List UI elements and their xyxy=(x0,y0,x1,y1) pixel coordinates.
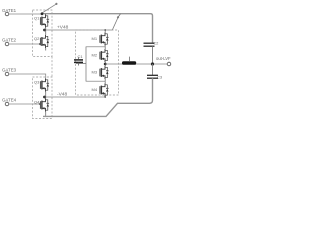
wire ground return bus (gray net) xyxy=(43,78,153,116)
svg-text:M4: M4 xyxy=(92,87,98,92)
svg-text:GATE2: GATE2 xyxy=(2,38,17,43)
node output to caps xyxy=(151,62,154,65)
transistor Q4 xyxy=(34,97,49,116)
dashed segment between left boxes xyxy=(51,57,53,78)
transistor Q1 xyxy=(34,14,49,30)
transistor Q2 xyxy=(34,30,49,51)
connector P1 GATE1 xyxy=(2,8,17,16)
node +V48 junction xyxy=(43,29,46,32)
switch S1 pivot dot xyxy=(41,12,44,15)
connector P3 GATE3 xyxy=(2,68,17,76)
capacitor C1 (dc link) xyxy=(74,54,83,66)
svg-text:Q3: Q3 xyxy=(34,80,40,85)
wire: P3 to Q3 drain xyxy=(9,74,46,79)
transistor M1 xyxy=(92,30,109,47)
wire gate bracket middle fets xyxy=(76,47,105,81)
wire inductor to output xyxy=(136,63,166,65)
switch S1 end dot xyxy=(55,3,57,5)
svg-text:GATE1: GATE1 xyxy=(2,8,17,13)
inductor top tick xyxy=(129,57,131,61)
svg-text:M1: M1 xyxy=(92,36,98,41)
output connector J1 xyxy=(156,56,171,66)
transistor M2 xyxy=(92,47,109,64)
svg-text:Q2: Q2 xyxy=(34,36,40,41)
svg-text:+V48: +V48 xyxy=(57,25,69,31)
node M4 source to -V48 xyxy=(104,96,106,98)
switch S2 stub to rail xyxy=(118,14,120,17)
svg-text:-V48: -V48 xyxy=(57,92,67,98)
wire output node to inductor xyxy=(105,63,122,65)
connector P4 GATE4 xyxy=(2,98,17,106)
svg-text:Q4: Q4 xyxy=(34,100,40,105)
transistor Q3 xyxy=(34,79,49,98)
capacitor C2 (top filter) xyxy=(144,41,160,65)
capacitor C3 (bottom filter) xyxy=(147,64,163,80)
svg-text:out-LVF: out-LVF xyxy=(156,56,171,61)
svg-text:Q1: Q1 xyxy=(34,16,40,21)
transistor M3 xyxy=(92,64,109,81)
node M1 drain to +V48 xyxy=(104,29,106,31)
node output junction xyxy=(104,63,107,66)
svg-text:M3: M3 xyxy=(92,70,98,75)
dashed module box left bottom xyxy=(33,77,53,119)
dashed module box left top xyxy=(33,10,53,57)
wire: P2 to Q2 gate xyxy=(9,43,40,45)
wire: P1 to top rail xyxy=(9,13,42,15)
wire +V48 rail xyxy=(45,29,113,31)
svg-text:GATE4: GATE4 xyxy=(2,98,17,103)
connector P2 GATE2 xyxy=(2,38,17,46)
svg-text:M2: M2 xyxy=(92,53,98,58)
switch S2 dot xyxy=(117,16,119,18)
transistor M4 xyxy=(92,81,109,97)
inductor L1 xyxy=(122,61,136,65)
switch S2 blade xyxy=(112,18,118,30)
wire: P4 to Q4 gate xyxy=(9,103,40,105)
switch S1 blade xyxy=(43,4,56,12)
svg-text:GATE3: GATE3 xyxy=(2,68,17,73)
wire -V48 rail xyxy=(45,96,106,98)
node -V48 junction xyxy=(43,96,46,99)
dashed module box middle xyxy=(76,30,119,95)
wire: top rail (gray net) xyxy=(42,14,153,43)
